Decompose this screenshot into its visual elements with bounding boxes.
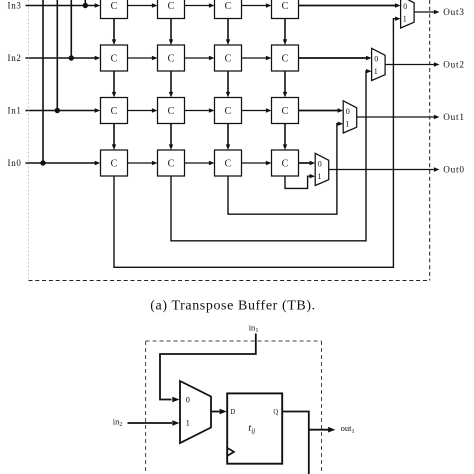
svg-text:In1: In1 bbox=[8, 105, 22, 115]
wire cell r1c2 down to cell r0c2 bbox=[169, 124, 173, 151]
svg-text:Out3: Out3 bbox=[443, 7, 465, 17]
wire In0 input row line bbox=[26, 161, 101, 165]
svg-text:C: C bbox=[282, 53, 289, 64]
wire mux M3 to Out3 bbox=[414, 10, 439, 14]
cell C row0 col4 bbox=[272, 150, 299, 176]
svg-text:C: C bbox=[168, 158, 175, 169]
boundary figure-b dashed box bbox=[146, 341, 322, 474]
wire cell r2c4 to mux M2 input 0 bbox=[299, 56, 372, 60]
svg-text:C: C bbox=[168, 106, 175, 117]
svg-text:0: 0 bbox=[186, 394, 190, 404]
mux M0 bbox=[315, 153, 329, 185]
wire cell r3c4 to mux M3 input 0 bbox=[299, 3, 401, 7]
svg-text:C: C bbox=[111, 106, 118, 117]
junction In2 branch dot bbox=[69, 55, 74, 60]
mux Mb bbox=[180, 381, 211, 443]
wire In1 vertical branch to top bbox=[56, 0, 58, 111]
wire cell r3c3 to cell r3c4 bbox=[242, 3, 272, 7]
wire cell r1c1 down to cell r0c1 bbox=[112, 124, 116, 151]
cell C row0 col3 bbox=[215, 150, 242, 176]
svg-text:Out2: Out2 bbox=[443, 60, 465, 70]
cell C row3 col1 bbox=[101, 0, 128, 19]
wire feedback col1 bottom to mux M3 input 1 bbox=[114, 17, 401, 268]
mux M3 bbox=[401, 0, 415, 28]
junction In0 branch dot bbox=[40, 160, 45, 165]
wire In3 vertical branch to top bbox=[84, 0, 86, 6]
svg-text:D: D bbox=[230, 409, 235, 416]
wire In0 vertical branch to top bbox=[42, 0, 44, 163]
cell C row3 col4 bbox=[272, 0, 299, 19]
wire cell r0c1 to cell r0c2 bbox=[128, 161, 158, 165]
junction In1 branch dot bbox=[55, 108, 60, 113]
svg-text:C: C bbox=[225, 53, 232, 64]
svg-text:In3: In3 bbox=[8, 0, 22, 10]
svg-text:C: C bbox=[111, 158, 118, 169]
svg-text:C: C bbox=[282, 158, 289, 169]
svg-text:Out0: Out0 bbox=[443, 165, 465, 175]
boundary figure-a dashed box bottom edge bbox=[29, 280, 430, 282]
wire In2 vertical branch to top bbox=[70, 0, 72, 58]
wire cell r1c3 to cell r1c4 bbox=[242, 108, 272, 112]
svg-text:1: 1 bbox=[345, 119, 349, 128]
wire cell r1c2 to cell r1c3 bbox=[185, 108, 215, 112]
cell C row1 col4 bbox=[272, 98, 299, 124]
junction In3 branch dot bbox=[83, 3, 88, 8]
wire cell r3c2 down to cell r2c2 bbox=[169, 19, 173, 46]
svg-text:C: C bbox=[168, 1, 175, 12]
wire mux M0 to Out0 bbox=[329, 167, 440, 171]
cell C row2 col3 bbox=[215, 45, 242, 71]
wire cell r3c4 down to cell r2c4 bbox=[283, 19, 287, 46]
svg-text:0: 0 bbox=[374, 55, 378, 64]
wire cell r2c3 down to cell r1c3 bbox=[226, 71, 230, 98]
wire cell r2c1 down to cell r1c1 bbox=[112, 71, 116, 98]
svg-text:1: 1 bbox=[317, 172, 321, 181]
wire cell r1c3 down to cell r0c3 bbox=[226, 124, 230, 151]
wire cell r3c1 down to cell r2c1 bbox=[112, 19, 116, 46]
mux M1 bbox=[343, 101, 357, 133]
cell C row2 col1 bbox=[101, 45, 128, 71]
wire cell r2c2 to cell r2c3 bbox=[185, 56, 215, 60]
wire cell r1c4 down to cell r0c4 bbox=[283, 124, 287, 151]
wire branch to out1 bbox=[309, 427, 336, 433]
svg-text:1: 1 bbox=[403, 14, 407, 23]
wire cell r2c4 down to cell r1c4 bbox=[283, 71, 287, 98]
wire cell r0c3 to cell r0c4 bbox=[242, 161, 272, 165]
wire In2 input row line bbox=[26, 56, 101, 60]
svg-text:(a) Transpose Buffer (TB).: (a) Transpose Buffer (TB). bbox=[150, 299, 315, 314]
mux M2 bbox=[372, 48, 386, 80]
boundary figure-a dashed box right edge bbox=[429, 0, 431, 281]
svg-text:C: C bbox=[168, 53, 175, 64]
wire cell r3c2 to cell r3c3 bbox=[185, 3, 215, 7]
wire feedback col3 bottom to mux M1 input 1 bbox=[228, 122, 343, 215]
wire cell r2c3 to cell r2c4 bbox=[242, 56, 272, 60]
cell C row1 col3 bbox=[215, 98, 242, 124]
wire In3 input row line bbox=[26, 3, 101, 7]
svg-text:In2: In2 bbox=[8, 53, 22, 63]
wire flipflop Q output bbox=[282, 412, 309, 474]
svg-text:In0: In0 bbox=[8, 158, 22, 168]
cell C row3 col2 bbox=[158, 0, 185, 19]
wire mux M2 to Out2 bbox=[385, 62, 439, 66]
svg-text:C: C bbox=[282, 106, 289, 117]
wire cell r2c1 to cell r2c2 bbox=[128, 56, 158, 60]
wire In1 input row line bbox=[26, 108, 101, 112]
svg-text:1: 1 bbox=[186, 417, 190, 427]
wire cell r0c4 to mux M0 input 0 bbox=[299, 161, 316, 165]
cell C row2 col2 bbox=[158, 45, 185, 71]
wire cell r1c4 to mux M1 input 0 bbox=[299, 108, 344, 112]
wire in1 to mux Mb input 0 bbox=[160, 334, 256, 403]
cell C row1 col1 bbox=[101, 98, 128, 124]
wire cell r2c2 down to cell r1c2 bbox=[169, 71, 173, 98]
wire cell r0c2 to cell r0c3 bbox=[185, 161, 215, 165]
svg-text:C: C bbox=[282, 1, 289, 12]
svg-text:C: C bbox=[111, 1, 118, 12]
wire in2 to mux Mb input 1 bbox=[128, 420, 180, 426]
wire mux M1 to Out1 bbox=[357, 115, 440, 119]
svg-text:Out1: Out1 bbox=[443, 112, 465, 122]
cell C row0 col1 bbox=[101, 150, 128, 176]
cell C row0 col2 bbox=[158, 150, 185, 176]
wire cell r1c1 to cell r1c2 bbox=[128, 108, 158, 112]
wire cell r3c1 to cell r3c2 bbox=[128, 3, 158, 7]
cell C row3 col3 bbox=[215, 0, 242, 19]
svg-text:C: C bbox=[225, 106, 232, 117]
svg-text:C: C bbox=[225, 158, 232, 169]
wire mux Mb to flipflop D bbox=[211, 409, 227, 415]
cell C row2 col4 bbox=[272, 45, 299, 71]
flipflop clock wedge bbox=[227, 448, 234, 456]
boundary figure-a dashed box left edge bbox=[28, 0, 30, 281]
svg-text:0: 0 bbox=[346, 107, 350, 116]
wire feedback col4 bottom to mux M0 input 1 bbox=[285, 174, 315, 188]
svg-text:0: 0 bbox=[318, 160, 322, 169]
svg-text:Q: Q bbox=[273, 409, 278, 416]
svg-text:0: 0 bbox=[403, 2, 407, 11]
wire cell r3c3 down to cell r2c3 bbox=[226, 19, 230, 46]
svg-text:C: C bbox=[225, 1, 232, 12]
cell C row1 col2 bbox=[158, 98, 185, 124]
flipflop t_ij bbox=[227, 393, 282, 463]
svg-text:C: C bbox=[111, 53, 118, 64]
wire feedback col2 bottom to mux M2 input 1 bbox=[171, 69, 372, 241]
svg-text:1: 1 bbox=[374, 67, 378, 76]
